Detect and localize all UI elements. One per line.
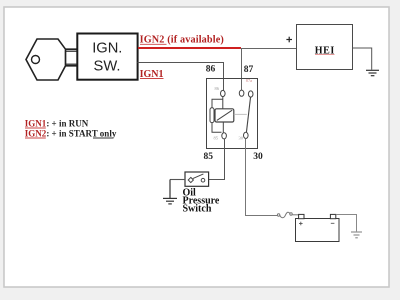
ground (HEI) bbox=[366, 70, 379, 75]
wire coil to 85 bbox=[222, 122, 224, 133]
switch blade bbox=[193, 174, 204, 179]
svg-text:30: 30 bbox=[253, 152, 263, 162]
wire 86 to coil bbox=[222, 97, 224, 109]
relay armature 30 to 87a bbox=[246, 97, 250, 132]
key shaft bbox=[66, 49, 78, 66]
HEI box bbox=[297, 25, 353, 70]
plus label at HEI bbox=[286, 37, 292, 43]
switch contact circle bbox=[201, 178, 205, 182]
wire switch to ground bbox=[170, 179, 185, 181]
wire battery - to ground bbox=[336, 215, 357, 232]
svg-text:87: 87 bbox=[244, 65, 254, 75]
wire junction down to relay 87 bbox=[241, 49, 243, 91]
legend text IGN1: + in RUN bbox=[25, 118, 117, 138]
tiny terminal labels bbox=[214, 86, 244, 141]
wire IGN1 from switch to relay 86 bbox=[138, 63, 224, 91]
wire HEI to ground bbox=[353, 48, 372, 70]
svg-text:Switch: Switch bbox=[183, 204, 212, 215]
ground (oil switch) bbox=[163, 180, 177, 204]
switch contact diamond bbox=[188, 177, 193, 182]
relay coil bbox=[215, 109, 234, 122]
svg-text:IGN1: + in RUN: IGN1: + in RUN bbox=[25, 118, 89, 128]
mechanical link coil to armature bbox=[234, 113, 247, 115]
key hole bbox=[32, 56, 40, 64]
oil pressure switch box bbox=[185, 172, 209, 186]
wire junction to HEI + bbox=[241, 48, 297, 50]
relay terminal 86 bbox=[221, 90, 226, 96]
svg-text:30: 30 bbox=[239, 136, 244, 141]
ignition switch box IGN.SW. bbox=[77, 34, 137, 80]
ground (battery) bbox=[351, 232, 362, 238]
relay resistor branch bbox=[212, 99, 223, 132]
wire IGN2 (red) from switch to junction bbox=[138, 47, 241, 49]
fusible link bbox=[277, 212, 298, 218]
svg-text:86: 86 bbox=[215, 86, 220, 91]
svg-text:86: 86 bbox=[206, 65, 216, 75]
battery terminal - tab bbox=[330, 214, 335, 218]
svg-text:85: 85 bbox=[214, 136, 219, 141]
battery terminal + tab bbox=[299, 214, 304, 218]
wire relay 30 down to fuse link bbox=[246, 139, 278, 216]
svg-text:SW.: SW. bbox=[94, 59, 121, 75]
svg-text:85: 85 bbox=[204, 152, 214, 162]
relay terminal 87 bbox=[239, 90, 244, 96]
svg-text:IGN.: IGN. bbox=[92, 40, 122, 56]
battery bbox=[296, 219, 340, 242]
relay box bbox=[207, 79, 258, 149]
relay terminal 30 bbox=[244, 132, 249, 138]
Oil Pressure Switch label bbox=[183, 188, 220, 215]
relay terminal 85 bbox=[222, 133, 227, 139]
key (ignition key symbol) bbox=[26, 39, 78, 80]
wire relay 85 down to oil switch bbox=[209, 139, 225, 180]
svg-text:87a: 87a bbox=[246, 78, 252, 83]
svg-text:IGN2: + in START only: IGN2: + in START only bbox=[25, 128, 117, 138]
relay terminal 87a bbox=[248, 91, 253, 97]
